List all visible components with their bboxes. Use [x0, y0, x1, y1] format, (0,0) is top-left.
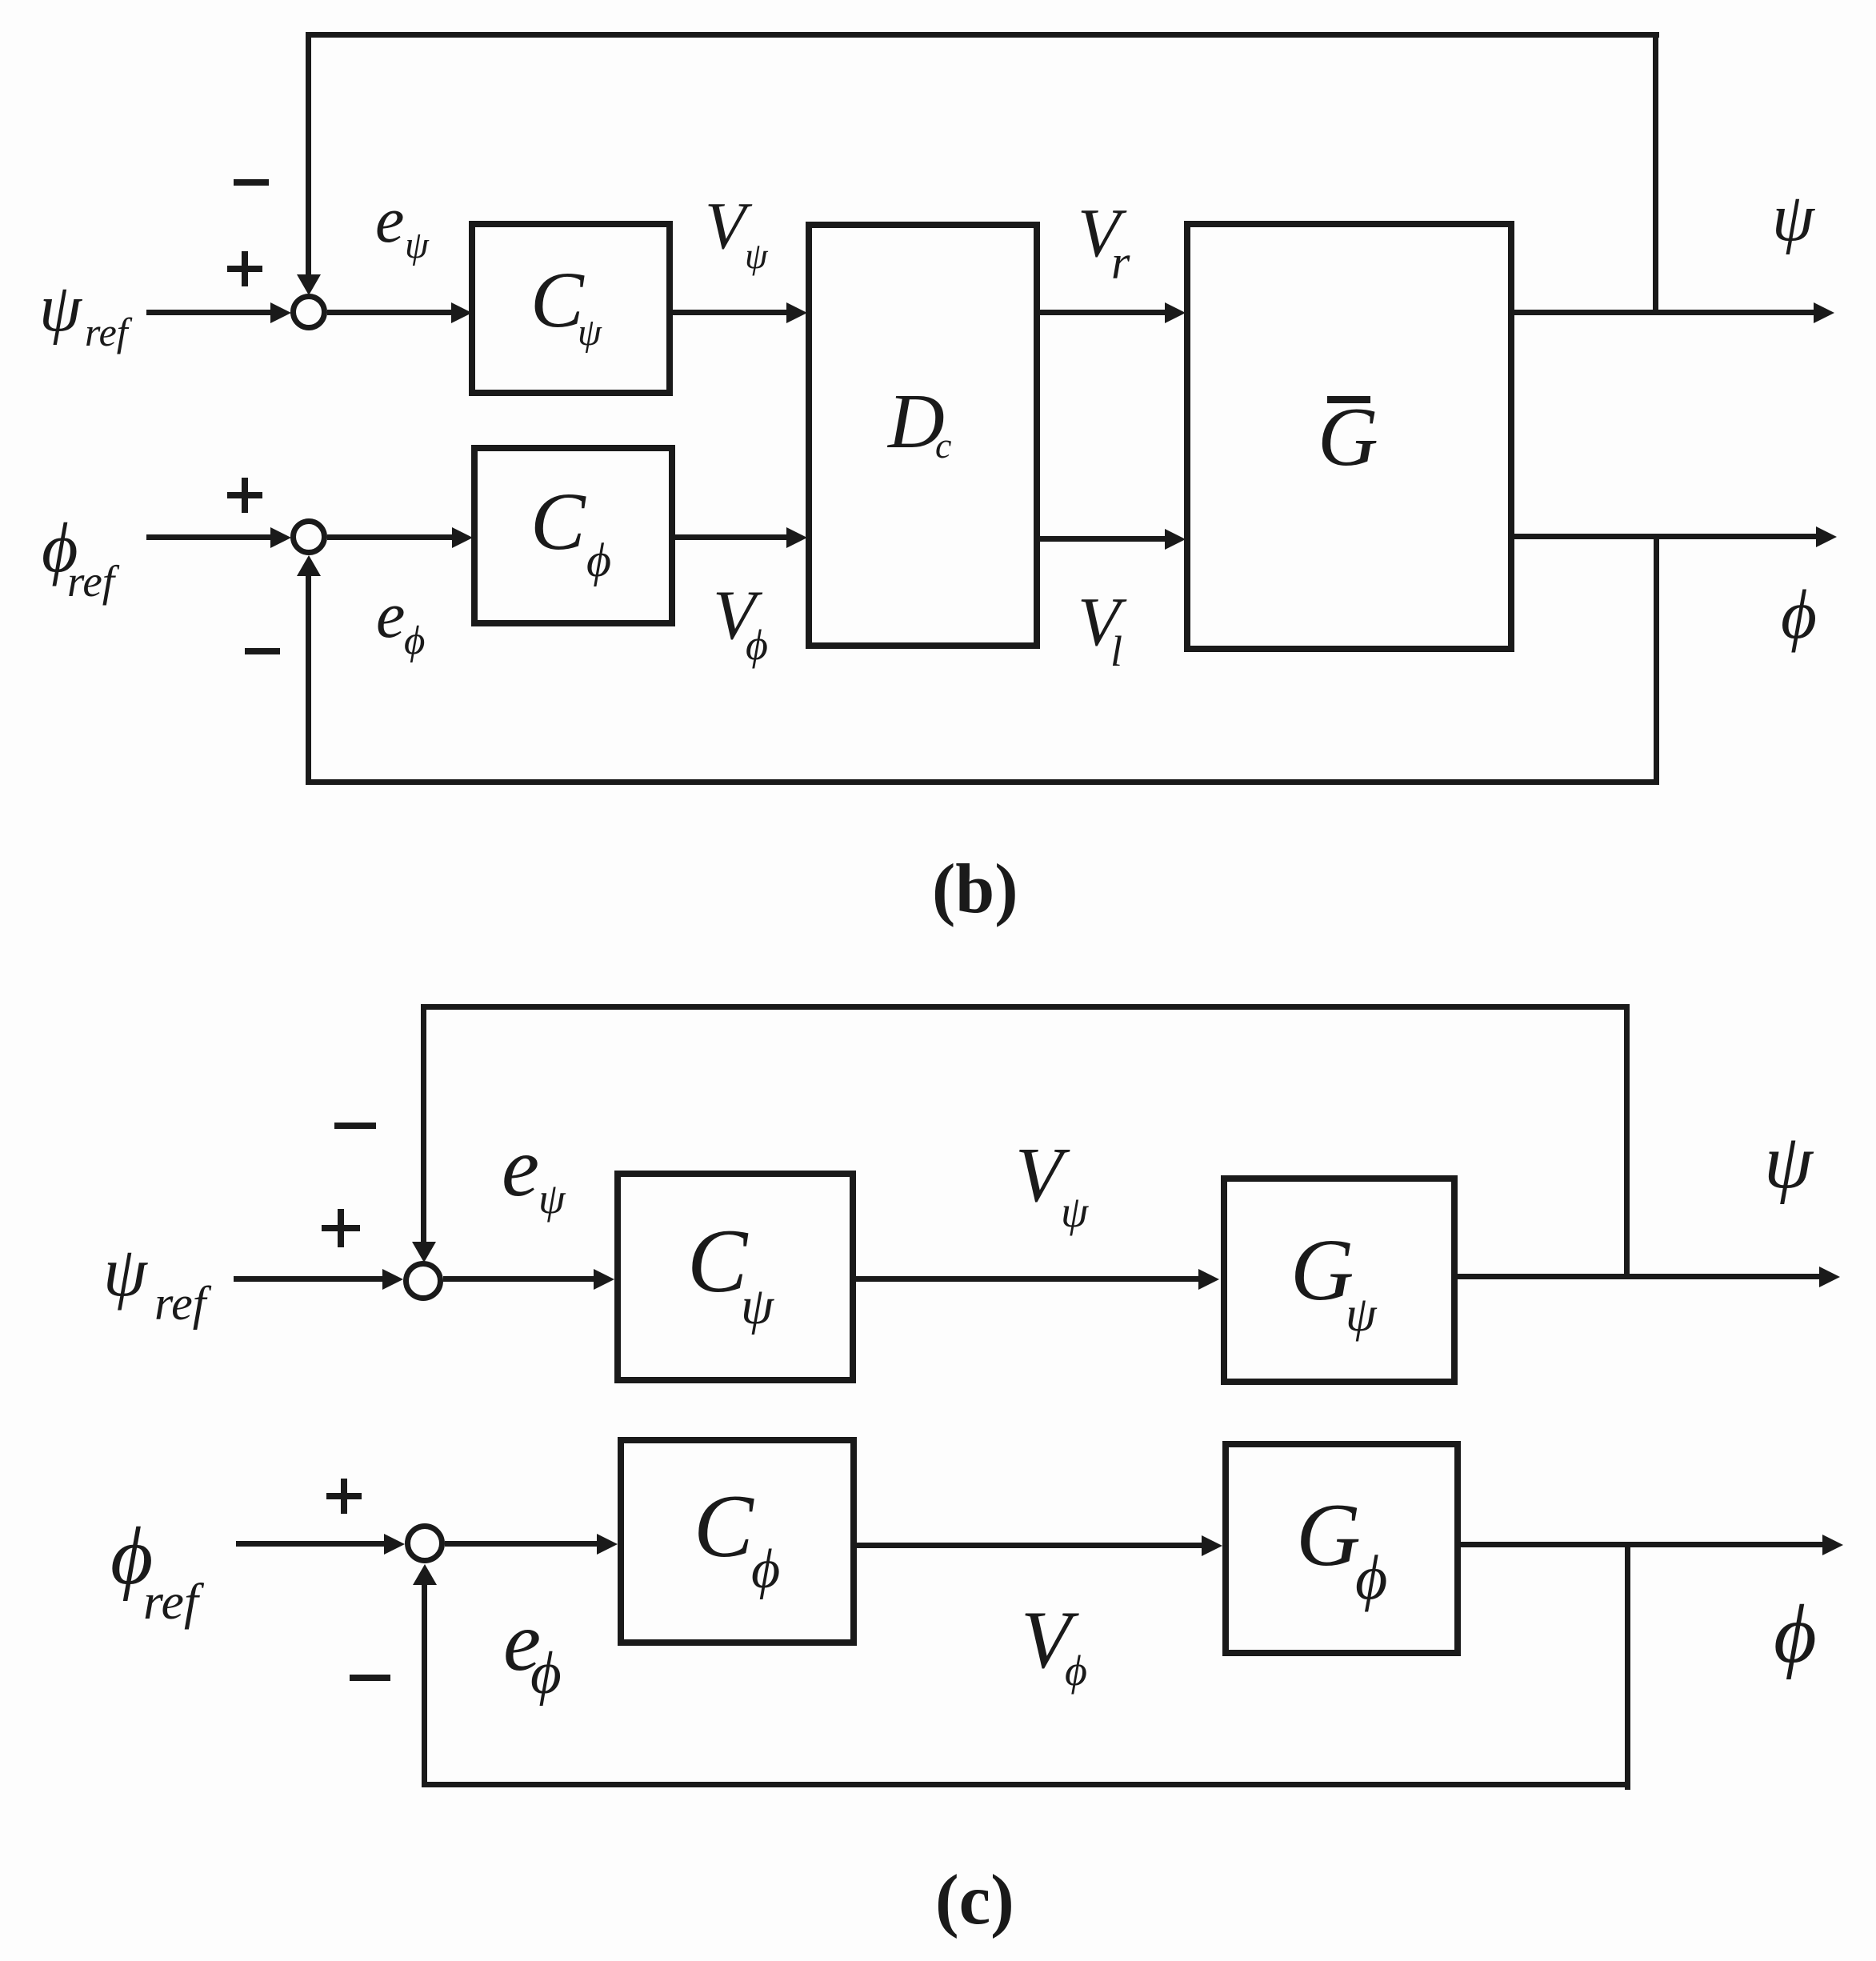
node label phi_ref (b) [42, 514, 78, 584]
wire: feedback rise into summing junction S4 [422, 1584, 427, 1787]
wire: e_phi from S4 to C_phi (c) [445, 1541, 597, 1547]
node label V_r (b) [1078, 198, 1120, 267]
node label V_psi (c) [1015, 1136, 1062, 1214]
block G_phi (c) [1222, 1441, 1461, 1656]
caption (c) [935, 1865, 1014, 1936]
node label e_psi (c) [502, 1125, 539, 1210]
summing junction S1 (b) [290, 294, 327, 330]
label D_c (b) [888, 382, 945, 461]
node label e_phi (c) [503, 1599, 541, 1684]
wire: outer feedback line top of diagram b [306, 32, 1659, 38]
node label phi output (b) [1781, 579, 1817, 649]
node label V_phi (b) [713, 581, 756, 651]
minus sign at S1 (b) [234, 179, 269, 186]
block C_phi (c) [618, 1437, 857, 1646]
wire: V_l from D_c to Gbar (b) [1040, 536, 1165, 542]
node label psi output (b) [1772, 184, 1814, 252]
plus sign at S3 (c) [322, 1225, 360, 1231]
wire: V_phi from C_phi to G_phi (c) [857, 1543, 1202, 1548]
label G_phi (c) [1296, 1491, 1361, 1580]
wire: outer feedback line top of diagram c [421, 1004, 1630, 1010]
node label psi_ref (c) [103, 1238, 147, 1308]
node label psi output (c) [1764, 1123, 1813, 1201]
wire: psi output from Gbar (b) [1514, 310, 1814, 315]
wire: psi_ref input to S3 (c) [234, 1276, 384, 1282]
minus sign at S4 (c) [350, 1675, 390, 1681]
label C_psi (c) [687, 1216, 747, 1307]
wire: feedback tap right top (c) [1624, 1007, 1630, 1279]
wire: phi_ref input to S2 (b) [146, 534, 272, 540]
wire: e_psi from S1 to C_psi (b) [327, 310, 451, 315]
wire: outer feedback line bottom of diagram b [306, 779, 1659, 785]
minus sign at S3 (c) [334, 1123, 376, 1129]
wire: V_r from D_c to Gbar (b) [1040, 310, 1165, 315]
wire: feedback rise into summing junction S2 [306, 573, 311, 785]
node label phi_ref (c) [110, 1515, 153, 1598]
node label V_psi (b) [705, 193, 746, 260]
wire: phi_ref input to S4 (c) [236, 1541, 384, 1547]
block C_phi (b) [471, 445, 675, 626]
plus sign at S1 (b) [227, 266, 262, 272]
wire: feedback tap right bottom (c) [1625, 1544, 1630, 1790]
node label phi output (c) [1774, 1593, 1817, 1676]
label C_phi (c) [694, 1482, 754, 1571]
block G_psi (c) [1221, 1175, 1458, 1385]
label Gbar (b) [1318, 394, 1378, 478]
node label e_phi (b) [376, 582, 405, 648]
summing junction S3 (c) [403, 1261, 443, 1301]
block Gbar (b) [1184, 221, 1514, 652]
wire: feedback tap right bottom (b) [1654, 536, 1659, 785]
wire: psi output from G_psi (c) [1458, 1274, 1819, 1279]
wire: V_phi from C_phi to D_c (b) [675, 534, 786, 540]
wire: feedback tap right top (b) [1653, 35, 1658, 315]
wire: V_psi from C_psi to G_psi (c) [856, 1276, 1198, 1282]
node label V_l (b) [1078, 586, 1120, 656]
wire: feedback drop into summing junction S3 [421, 1004, 426, 1242]
wire: e_phi from S2 to C_phi (b) [327, 534, 452, 540]
plus sign at S2 (b) [227, 492, 262, 498]
block C_psi (b) [469, 221, 673, 396]
label G_psi (c) [1290, 1226, 1354, 1314]
wire: V_psi from C_psi to D_c (b) [673, 310, 786, 315]
wire: phi output from G_phi (c) [1461, 1542, 1822, 1547]
label C_psi (b) [530, 260, 584, 340]
node label e_psi (b) [375, 187, 404, 253]
label C_phi (b) [530, 481, 586, 563]
node label psi_ref (b) [39, 274, 82, 342]
wire: e_psi from S3 to C_psi (c) [443, 1276, 594, 1282]
block C_psi (c) [614, 1171, 856, 1383]
summing junction S2 (b) [290, 518, 327, 555]
node label V_phi (c) [1021, 1599, 1071, 1682]
wire: psi_ref input to S1 (b) [146, 310, 272, 315]
block D_c (b) [806, 222, 1040, 649]
wire: feedback drop into summing junction S1 [306, 32, 311, 275]
wire: outer feedback line bottom of diagram c [422, 1782, 1630, 1787]
plus sign at S4 (c) [326, 1493, 362, 1499]
caption (b) [932, 854, 1018, 925]
summing junction S4 (c) [405, 1523, 445, 1563]
wire: phi output from Gbar (b) [1514, 534, 1816, 539]
minus sign at S2 (b) [245, 648, 280, 654]
